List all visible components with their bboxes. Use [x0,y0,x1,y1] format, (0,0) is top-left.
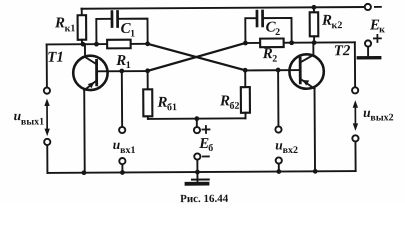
arrow uвых2 [353,100,359,131]
resistor Rк2 [310,12,319,36]
svg-text:T2: T2 [334,43,351,59]
svg-text:R: R [262,46,273,62]
wire Rk1 top stub [81,9,83,15]
wire bias bus Eб [148,117,246,120]
svg-text:к1: к1 [65,23,76,34]
sign plus Eб [202,126,209,133]
transistor Q T1 [73,44,108,90]
resistor R2 [260,39,284,48]
wire Eб lower stub [196,159,198,172]
svg-text:б: б [208,143,213,154]
terminal uвых2 bottom [352,135,358,141]
resistor Rб2 [241,87,250,113]
wire uвх2 lower stub [278,164,280,172]
node Rk1/collector T1 [81,42,86,47]
node base T2 [243,68,248,73]
node Rk2 bottom / collector T2 [312,40,317,45]
svg-text:вх2: вх2 [283,145,298,156]
wire input drop uвх1 [121,71,123,127]
terminal uвых1 bottom [44,139,50,145]
resistor Rк1 [78,15,87,40]
node uвх1 tap [119,69,124,74]
sign minus Eб [203,155,209,157]
ground at Eб [186,173,208,184]
wire C2 right branch [264,18,292,43]
wire uвых2 lower drop [354,141,356,171]
sign plus Eк [374,35,381,42]
wire Rb1 bottom stub [147,116,149,119]
wire collector line T1 [47,43,148,46]
node base T1 [145,68,150,73]
terminal uвх1 bottom [119,158,125,164]
label Eб [198,136,213,154]
arrow uвых1 [44,98,50,136]
caption Рис. 16.44 [180,193,229,205]
node uвх2 rail [276,169,281,174]
wire top supply rail [81,7,364,9]
label R1 [115,53,131,71]
wire Eк plus stub [367,46,369,55]
svg-text:R: R [321,13,332,29]
node C1 left [94,42,99,47]
label uвх1 [113,137,136,156]
label Rб2 [219,93,240,112]
svg-text:R: R [219,93,230,109]
wire diagonal collector T2 to base T1 [148,43,246,71]
node emitter T1 rail [82,170,87,175]
svg-text:вых2: вых2 [370,112,393,123]
wire C2 left branch [245,18,256,43]
svg-text:б2: б2 [229,101,239,112]
wire uвх1 lower stub [121,164,123,172]
capacitor C2 [257,11,263,26]
wire Rk1 bottom stub [81,40,83,44]
node C2 left [243,41,248,46]
wire uвых1 lower drop [46,145,48,173]
wire emitter T1 down [83,90,86,172]
resistor R1 [107,40,131,49]
wire emitter T2 down [314,89,317,172]
svg-text:R: R [54,15,65,31]
node ground rail [195,170,200,175]
svg-text:1: 1 [130,28,135,39]
label Rб1 [156,95,177,114]
sign minus Eк [375,6,381,8]
wire Eб terminal stub [196,119,198,128]
wire C1 left branch [96,19,111,44]
wire Rk2 top stub [313,7,315,12]
node emitter T2 rail [313,169,318,174]
terminal Eк minus [365,4,371,10]
terminal circles [43,4,372,165]
wire Rb2 bottom stub [244,113,246,119]
label uвых1 [14,108,45,128]
terminal Eк plus [365,40,371,46]
wire Rb1 top stub [147,71,149,89]
svg-text:к: к [379,24,385,35]
wire base line T2 [245,69,300,71]
wire output drop uвых1 [46,44,48,87]
svg-text:R: R [115,53,126,69]
label uвых2 [363,105,394,124]
svg-text:1: 1 [126,60,131,71]
wire collector line T2 [245,41,354,44]
svg-text:вых1: вых1 [21,116,44,127]
node C2 right / R2 right [289,40,294,45]
resistor Rб1 [143,89,152,116]
node uвх1 rail [120,170,125,175]
wire C1 right branch [119,19,148,44]
transistor Q T2 [289,43,324,89]
label C2 [265,20,280,39]
wire bottom rail [47,171,355,173]
label Eк [369,17,385,35]
svg-text:вх1: вх1 [120,145,135,156]
label T2 [334,43,351,59]
terminal uвых1 top [44,88,50,94]
svg-text:2: 2 [275,27,280,38]
ground at Eк [358,56,379,60]
label Rк2 [321,13,342,32]
node uвх2 tap [276,68,281,73]
node Rk2 on top rail [312,5,317,10]
wire Rb2 top stub [244,70,246,87]
label Rк1 [54,15,75,34]
wire output drop uвых2 [354,42,356,87]
svg-text:к2: к2 [332,20,343,31]
wire base line T1 [97,70,148,72]
capacitor C1 [112,12,118,27]
label uвх2 [275,137,298,156]
terminal uвых2 top [352,87,358,93]
terminal Eб minus [194,153,200,159]
svg-text:R: R [156,95,167,111]
terminal uвх1 top [119,127,125,133]
terminal Eб plus [194,127,200,133]
label R2 [262,46,278,65]
svg-text:T1: T1 [47,50,64,66]
wire Rk2 bottom stub [313,36,315,42]
node Eб tap [194,116,199,121]
svg-text:Рис. 16.44: Рис. 16.44 [180,193,229,205]
node C1 right / R1 right [145,41,150,46]
label C1 [121,21,136,40]
svg-text:б1: б1 [167,102,177,113]
svg-text:2: 2 [272,54,277,65]
wire input drop uвх2 [277,70,279,127]
label T1 [47,50,64,66]
wire diagonal collector T1 to base T2 [148,43,246,71]
terminal uвх2 bottom [276,157,282,163]
terminal uвх2 top [275,126,281,132]
